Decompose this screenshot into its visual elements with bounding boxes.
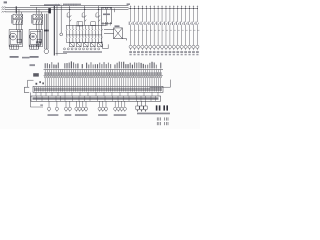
- branch 1 side text: [11, 15, 12, 24]
- cable entry bracket: [24, 87, 29, 92]
- X1 terminal 31: [110, 64, 112, 86]
- wires block to enclosure 1: [16, 24, 21, 30]
- cable schedule band: [31, 96, 161, 101]
- small note above strip left: [30, 64, 36, 66]
- X1 terminal 41: [131, 65, 133, 87]
- X1 terminal 45: [140, 63, 142, 87]
- PLC device box A1: [102, 8, 112, 24]
- relay branch 8 (coil K8): [156, 6, 160, 56]
- X1 terminal 17: [79, 70, 81, 87]
- X1 terminal 14: [73, 62, 75, 86]
- motor enclosure 1 inner box: [11, 31, 21, 44]
- aux block on rung: [91, 22, 96, 26]
- X1 terminal 39: [127, 64, 129, 86]
- relay branch 5 (coil K5): [144, 6, 148, 56]
- X1 terminal 8: [60, 70, 62, 87]
- relay branch 16 (coil K16): [188, 6, 192, 56]
- X1 terminal 46: [142, 64, 144, 87]
- X1 terminal 33: [114, 64, 116, 86]
- X1 terminal 40: [129, 63, 131, 87]
- X1 terminal 5: [53, 64, 55, 86]
- X1 terminal 16: [77, 63, 79, 86]
- bus wire L1: [5, 6, 129, 8]
- X1 terminal 53: [158, 70, 160, 87]
- timer block on rung: [77, 22, 82, 26]
- X1 terminal 19: [83, 70, 85, 87]
- connector group 4: [98, 101, 108, 111]
- bottom terminal strip X2 box: [33, 86, 163, 92]
- three-phase incoming supply arrows: [2, 7, 6, 13]
- relay branch 4 (coil K4): [140, 6, 144, 56]
- motor terminal box 1: [10, 45, 19, 49]
- relay branch 12 (coil K12): [172, 6, 176, 56]
- comb bottom line: [44, 74, 164, 76]
- bus wire L2: [5, 8, 129, 10]
- relay branch 13 (coil K13): [176, 6, 180, 56]
- ladder horizontal rung y25.4: [66, 24, 106, 26]
- right bank top bus: [129, 8, 198, 10]
- control terminal circles row: [64, 48, 100, 50]
- marker squares group: [136, 101, 147, 111]
- motor enclosure 2 outer box: [29, 30, 43, 47]
- relay coil boxes row: [70, 43, 103, 47]
- connector group 1: [47, 101, 58, 111]
- motor terminal box 2: [30, 45, 39, 49]
- overload bars 1: [17, 30, 22, 44]
- right side collector wire: [150, 80, 170, 88]
- X1 terminal 9: [62, 70, 64, 87]
- U1 label: [115, 25, 120, 27]
- bus wire N: [30, 5, 129, 7]
- wire from ladder to U1: [101, 9, 114, 49]
- X1 terminal 21: [88, 65, 90, 87]
- motor enclosure 2 inner box: [31, 31, 41, 44]
- X1 terminal 37: [123, 62, 125, 87]
- relay branch 9 (coil K9): [160, 6, 164, 56]
- label group 1: [10, 56, 19, 58]
- note text left of strip: [22, 57, 30, 59]
- motor enclosure 1 outer box: [9, 30, 23, 47]
- X1 terminal 42: [134, 62, 136, 86]
- overload bars 2: [37, 30, 42, 44]
- connector group 5: [114, 101, 127, 111]
- bus wire L3: [5, 11, 50, 13]
- X1 terminal 29: [105, 64, 107, 86]
- control riser wire: [56, 6, 58, 56]
- X1 terminal 47: [145, 65, 147, 87]
- X1 terminal 20: [86, 63, 88, 87]
- X1 terminal 23: [92, 64, 94, 86]
- X1 terminal 48: [147, 65, 149, 87]
- junction ticks at x16: [15, 6, 17, 13]
- terminal ticks above control bus: [56, 4, 76, 6]
- X1 terminal 4: [51, 62, 53, 86]
- feeder branch 3 wires: [45, 14, 48, 49]
- X1 terminal 15: [75, 64, 77, 87]
- relay branch 6 (coil K6): [148, 6, 152, 56]
- X1 terminal 7: [57, 63, 59, 87]
- left drop wire 2: [29, 92, 31, 107]
- X1 terminal 22: [90, 62, 92, 86]
- branch 2 side text: [31, 15, 32, 24]
- device box bottom stubs: [103, 24, 110, 26]
- X1 terminal 32: [112, 70, 114, 87]
- X1 terminal 25: [97, 64, 99, 86]
- PE label left of strip: [33, 73, 39, 76]
- contactor K2 main contacts: [33, 20, 43, 25]
- terminal strip X1 label line: [44, 69, 164, 71]
- relay branch 2 (coil K2): [133, 6, 137, 56]
- X1 terminal 12: [68, 63, 70, 87]
- X1 terminal 36: [121, 62, 123, 87]
- X1 terminal 26: [99, 63, 101, 87]
- relay branch 15 (coil K15): [184, 6, 188, 56]
- wires block to enclosure 2: [36, 24, 41, 30]
- relay branch 17 (coil K17): [192, 6, 196, 56]
- control riser thick bar: [53, 6, 55, 56]
- X1 terminal 2: [46, 63, 48, 86]
- bold terminal pair 1: [156, 105, 161, 110]
- X2 marks: [34, 88, 162, 91]
- X1 terminal 38: [125, 64, 127, 86]
- power supply U1 (crossed box): [104, 28, 127, 41]
- bold terminal pair 2: [163, 105, 168, 110]
- left drop wire to strip: [28, 80, 34, 87]
- wire label band above bus: [44, 4, 60, 6]
- cable tail hatches: [157, 117, 168, 125]
- cable schedule text: [33, 97, 159, 99]
- label group 2: [30, 56, 39, 58]
- bottom caption text left: [137, 113, 170, 115]
- PE busbar block (solid): [48, 8, 51, 13]
- relay branch 18 (coil K18): [196, 6, 200, 56]
- X1 terminal 18: [81, 64, 83, 86]
- X1 terminal 34: [116, 63, 118, 87]
- X1 terminal 28: [103, 62, 105, 86]
- X1 terminal 10: [64, 63, 66, 86]
- ladder contact symbols upper: [67, 12, 100, 21]
- X1 terminal 24: [94, 64, 96, 86]
- supply labels L1 L2 L3: [4, 1, 7, 3]
- X1 terminal 3: [49, 64, 51, 86]
- strip1 to band connectors: [36, 92, 158, 96]
- motor starter branch 2: drop wires: [36, 7, 41, 14]
- X1 terminal 11: [66, 63, 68, 86]
- X1 terminal 52: [155, 65, 157, 87]
- tiny label left of connector row: [40, 104, 43, 106]
- connector group 2: [64, 101, 71, 111]
- X1 terminal 13: [70, 61, 72, 86]
- lamp feed wire: [60, 6, 62, 33]
- motor starter branch 1: drop wires: [16, 7, 21, 14]
- relay branch 1 (coil K1): [129, 6, 133, 56]
- X1 terminal 49: [149, 63, 151, 87]
- circuit breaker Q2: [33, 14, 43, 19]
- motor M2: [30, 33, 37, 40]
- interlock contact grid: [66, 25, 103, 42]
- control ladder rails: [69, 6, 106, 26]
- relay branch 14 (coil K14): [180, 6, 184, 56]
- bank voltage label: [127, 3, 130, 5]
- circuit ref text above bus: [63, 4, 81, 5]
- pump motor M3: [44, 49, 49, 54]
- X1 terminal 35: [118, 62, 120, 87]
- X1 terminal 50: [151, 62, 153, 87]
- socket X0 (crossed square): [36, 42, 40, 49]
- X1 terminal 44: [138, 62, 140, 86]
- control terminal labels: [63, 51, 102, 53]
- relay branch 10 (coil K10): [164, 6, 168, 56]
- circuit breaker Q1: [13, 14, 23, 19]
- indicator lamp H1: [60, 33, 63, 36]
- X1 terminal 43: [136, 63, 138, 87]
- X1 terminal 27: [101, 64, 103, 86]
- X1 terminal 51: [153, 62, 155, 86]
- contactor K1 main contacts: [13, 20, 23, 25]
- relay branch 11 (coil K11): [168, 6, 172, 56]
- X2 internal terminals: [34, 87, 160, 92]
- cable markers on branch 3: [44, 30, 49, 32]
- X1 terminal 6: [55, 65, 57, 87]
- X1 terminal 30: [107, 63, 109, 87]
- X1 terminal 54: [160, 63, 162, 87]
- X1 terminal 1: [44, 63, 46, 86]
- relay branch 7 (coil K7): [152, 6, 156, 56]
- motor M1: [10, 33, 17, 40]
- wire number tags: [36, 83, 38, 85]
- relay branch 3 (coil K3): [137, 6, 141, 56]
- connector group 3: [75, 101, 88, 111]
